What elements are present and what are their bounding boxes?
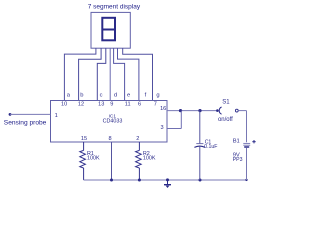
svg-text:PP3: PP3: [233, 157, 243, 163]
svg-text:3: 3: [160, 125, 163, 131]
svg-text:CD4033: CD4033: [103, 119, 123, 125]
svg-text:7 segment display: 7 segment display: [88, 3, 141, 10]
svg-text:16: 16: [160, 106, 166, 112]
svg-text:g: g: [156, 92, 159, 98]
svg-text:on/off: on/off: [218, 117, 233, 123]
svg-text:S1: S1: [222, 99, 230, 105]
svg-text:b: b: [80, 92, 83, 98]
svg-text:B1: B1: [233, 139, 240, 145]
svg-text:0.1uF: 0.1uF: [204, 144, 217, 150]
svg-text:d: d: [114, 92, 117, 98]
svg-text:12: 12: [78, 102, 84, 108]
svg-text:11: 11: [125, 102, 131, 108]
svg-text:10: 10: [61, 102, 67, 108]
svg-text:8: 8: [108, 136, 111, 142]
svg-text:Sensing probe: Sensing probe: [4, 119, 47, 126]
svg-text:15: 15: [81, 136, 87, 142]
svg-text:1: 1: [55, 113, 58, 119]
svg-text:c: c: [100, 92, 103, 98]
svg-text:6: 6: [138, 102, 141, 108]
svg-text:7: 7: [154, 102, 157, 108]
svg-text:100K: 100K: [143, 155, 156, 161]
svg-text:2: 2: [136, 136, 139, 142]
svg-text:100K: 100K: [87, 155, 100, 161]
svg-text:e: e: [127, 92, 130, 98]
svg-text:13: 13: [98, 102, 104, 108]
svg-text:9: 9: [110, 102, 113, 108]
